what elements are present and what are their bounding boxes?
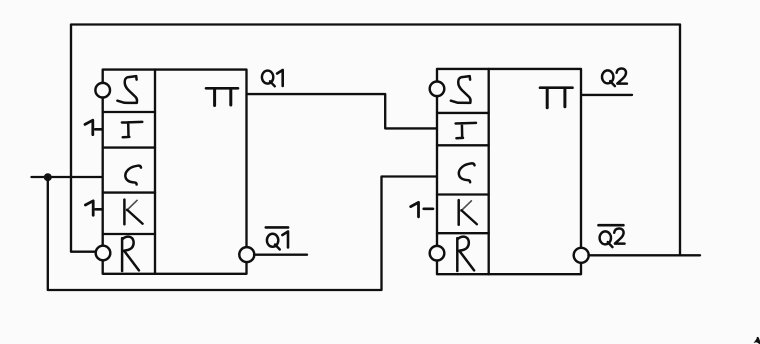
U2 cell divider J/C (437, 144, 489, 146)
wire: Q1-bar output stub (254, 254, 307, 256)
U1 pin label K (124, 200, 142, 225)
U2 constant-1 label at K input (411, 202, 433, 216)
U1 constant-1 label at J input (85, 120, 102, 134)
U2 pin label C (459, 163, 475, 182)
U2 pin S inversion bubble (430, 82, 445, 97)
U1 output Q1-bar inversion bubble (239, 247, 254, 262)
U2 pin R inversion bubble (430, 246, 445, 261)
U1 cell divider C/K (103, 191, 155, 193)
U2 pin label J (456, 123, 476, 138)
U1 pin R inversion bubble (96, 246, 111, 261)
U2 input column divider (488, 69, 490, 274)
U2 label TT (540, 88, 573, 108)
U1 pin label R (122, 237, 139, 271)
U1 pin label J (122, 122, 142, 137)
flip-flop U1 body (103, 70, 247, 274)
label Q1 (262, 70, 283, 86)
U2 pin label S (451, 76, 471, 103)
U2 output Q2-bar inversion bubble (574, 248, 589, 263)
label Q2-bar with overline (599, 225, 625, 247)
wire: Q2 output stub (581, 94, 632, 96)
U1 label TT (206, 88, 238, 105)
U1 input column divider (154, 70, 156, 274)
label Q1-bar with overline (266, 227, 288, 249)
U1 cell divider S/J (103, 111, 155, 113)
wire: Q1 output over to J input of U2 (247, 94, 437, 128)
wire: clock branch down, along bottom, up to C of U2 (48, 177, 437, 291)
wire: Q2-bar output line joining right feedback (588, 254, 700, 256)
node: clock junction dot (44, 173, 52, 181)
U1 pin label C (125, 166, 141, 185)
U2 cell divider S/J (437, 112, 489, 114)
wire: feedback top rail from Q2-bar to R input of U1 (71, 25, 680, 252)
U1 pin label S (117, 76, 137, 103)
flip-flop U2 body (437, 69, 581, 274)
wire: right feedback drop from top rail down to Q2-bar output line (679, 25, 681, 256)
U2 pin label K (459, 200, 477, 225)
wire: clock input line to C of U1 (32, 176, 103, 178)
U2 cell divider C/K (437, 193, 489, 195)
U1 cell divider K/R (103, 233, 155, 235)
U1 cell divider J/C (103, 146, 155, 148)
U1 pin S inversion bubble (95, 83, 110, 98)
U1 constant-1 label at K input (85, 201, 102, 215)
U2 pin label R (457, 237, 474, 271)
stray mark bottom-right corner (754, 338, 760, 344)
label Q2 (602, 69, 627, 87)
U2 cell divider K/R (437, 232, 489, 234)
